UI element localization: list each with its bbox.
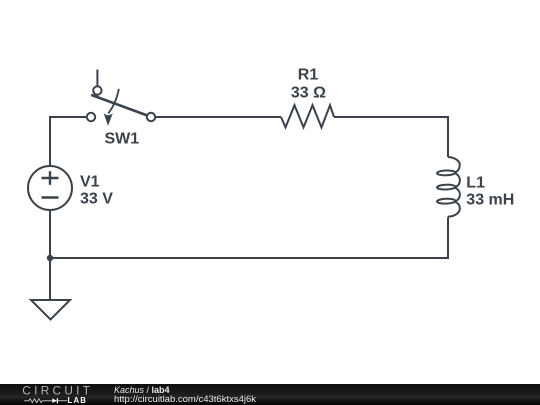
inductor L1: [437, 157, 460, 218]
wire top-left from V1 to switch left terminal: [50, 117, 87, 166]
label R1 value: [291, 67, 326, 102]
svg-text:R1: R1: [298, 67, 319, 84]
CircuitLab logo: [0, 384, 100, 405]
svg-text:V1: V1: [80, 173, 100, 190]
svg-text:LAB: LAB: [68, 396, 88, 405]
footer text: [114, 385, 256, 405]
label SW1: [105, 131, 140, 148]
label V1 value: [80, 173, 113, 207]
wire from switch right terminal to resistor R1: [155, 116, 281, 118]
label L1 value: [466, 174, 514, 208]
svg-text:SW1: SW1: [105, 131, 140, 148]
wire from V1 bottom to ground: [49, 210, 51, 300]
svg-text:33 V: 33 V: [80, 191, 113, 208]
voltage source V1: [28, 166, 72, 210]
wire from resistor R1 to top-right corner down to inductor: [334, 117, 448, 157]
svg-text:33 mH: 33 mH: [466, 191, 514, 208]
resistor R1: [281, 105, 334, 127]
svg-text:L1: L1: [466, 174, 485, 191]
svg-text:33 Ω: 33 Ω: [291, 85, 326, 102]
switch SW1: [87, 70, 155, 126]
junction node at V1 bottom / bottom wire: [47, 255, 53, 261]
wire from inductor bottom to bottom-right corner: [50, 218, 448, 258]
ground: [31, 300, 70, 320]
